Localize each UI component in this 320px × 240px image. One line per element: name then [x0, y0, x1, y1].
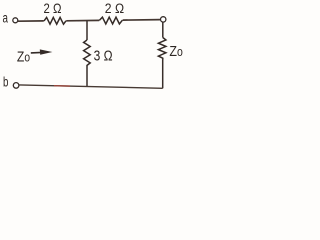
- arrow (looking-in direction): [31, 51, 42, 54]
- resistor R3 3ohm vertical zigzag: [84, 40, 91, 69]
- wire bottom (b to corner): [19, 85, 163, 88]
- wire R3 bottom lead: [86, 69, 88, 87]
- svg-text:2 Ω: 2 Ω: [105, 0, 124, 16]
- wire bottom reddish scan tint segment: [54, 85, 70, 87]
- terminal b circle: [13, 83, 19, 89]
- svg-text:2 Ω: 2 Ω: [44, 0, 62, 16]
- wire top-middle (R1 to R2 through node): [66, 19, 99, 21]
- svg-text:a: a: [3, 10, 9, 26]
- resistor R2 2ohm zigzag: [99, 17, 122, 24]
- load lead (node circle to Zo): [162, 22, 164, 37]
- svg-text:3 Ω: 3 Ω: [94, 47, 113, 64]
- wire load bottom lead to corner: [162, 60, 164, 89]
- node circle top-right: [161, 17, 166, 22]
- node T-junction lead (top wire to R3): [86, 21, 88, 41]
- svg-text:Zo: Zo: [17, 48, 30, 65]
- wire top-right (R2 to node circle): [123, 19, 161, 22]
- load impedance Zo vertical zigzag: [158, 38, 166, 60]
- terminal a circle: [13, 18, 18, 23]
- wire top-left (a to R1): [18, 20, 44, 22]
- resistor R1 2ohm zigzag: [44, 17, 66, 24]
- svg-text:b: b: [3, 75, 9, 90]
- svg-text:Zo: Zo: [169, 42, 183, 59]
